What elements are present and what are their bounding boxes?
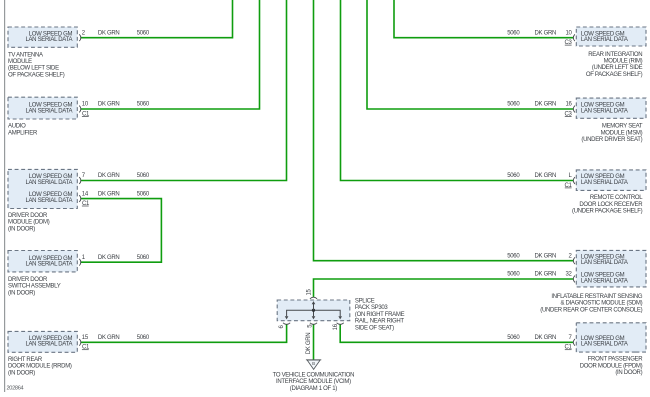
rear integration module RIM pin 10 row — [565, 30, 628, 46]
audio amplifier label — [8, 124, 38, 137]
svg-text:5060: 5060 — [507, 272, 520, 278]
memory seat module MSM label — [581, 124, 642, 143]
svg-text:DK GRN: DK GRN — [535, 102, 557, 108]
svg-text:INFLATABLE RESTRAINT SENSING: INFLATABLE RESTRAINT SENSING — [551, 294, 643, 300]
splice pack SP303 box — [277, 300, 350, 321]
svg-text:LAN SERIAL DATA: LAN SERIAL DATA — [25, 198, 72, 204]
inflatable restraint SDM label — [540, 294, 643, 313]
svg-text:DK GRN: DK GRN — [98, 335, 120, 341]
right rear door module RRDM box — [8, 331, 77, 352]
remote control door lock receiver box — [576, 170, 646, 191]
svg-text:& DIAGNOSTIC MODULE (SDM): & DIAGNOSTIC MODULE (SDM) — [560, 301, 642, 307]
svg-text:5060: 5060 — [507, 173, 520, 179]
svg-text:5060: 5060 — [137, 335, 150, 341]
wire SDM pin 2 to top bus — [314, 0, 574, 261]
wire label FPDM — [507, 335, 556, 341]
wire label RIM — [507, 30, 556, 36]
splice pin 16 arrow (down) — [338, 316, 342, 319]
svg-text:MODULE (RIM): MODULE (RIM) — [604, 59, 643, 65]
memory seat module MSM pin 16 row — [565, 102, 628, 118]
svg-text:DK GRN: DK GRN — [535, 173, 557, 179]
svg-text:TO VEHICLE COMMUNICATION: TO VEHICLE COMMUNICATION — [273, 373, 355, 379]
splice pin 15 connector arc — [310, 297, 317, 299]
svg-text:LAN SERIAL DATA: LAN SERIAL DATA — [25, 262, 72, 268]
svg-text:10: 10 — [82, 102, 89, 108]
svg-text:5060: 5060 — [507, 253, 520, 259]
wire label TV antenna — [98, 30, 150, 36]
svg-text:5060: 5060 — [137, 30, 150, 36]
svg-text:DK GRN: DK GRN — [306, 333, 312, 355]
svg-text:DK GRN: DK GRN — [535, 335, 557, 341]
svg-text:LAN SERIAL DATA: LAN SERIAL DATA — [25, 108, 72, 114]
svg-text:MODULE (DDM): MODULE (DDM) — [8, 220, 50, 226]
svg-text:DK GRN: DK GRN — [98, 173, 120, 179]
svg-text:5060: 5060 — [507, 30, 520, 36]
svg-text:DRIVER DOOR: DRIVER DOOR — [8, 277, 48, 283]
rear integration module RIM label — [586, 52, 643, 78]
svg-text:5060: 5060 — [137, 102, 150, 108]
svg-text:MODULE (MSM): MODULE (MSM) — [601, 130, 643, 136]
svg-text:5060: 5060 — [137, 191, 150, 197]
splice internal bus rail — [287, 310, 341, 316]
svg-text:RIGHT REAR: RIGHT REAR — [8, 357, 43, 363]
wire RIM pin 10 to top — [394, 0, 573, 38]
wire label audio amplifier — [98, 102, 150, 108]
TV antenna module box — [8, 27, 77, 47]
splice pin 5 arrow (down) — [312, 316, 316, 319]
svg-text:(IN DOOR): (IN DOOR) — [8, 370, 35, 376]
wire splice pin 6 to RRDM pin 15 — [80, 324, 286, 342]
svg-text:DK GRN: DK GRN — [98, 191, 120, 197]
splice pin 6 arrow (down) — [285, 316, 289, 319]
svg-text:LAN SERIAL DATA: LAN SERIAL DATA — [581, 180, 628, 186]
wire label SDM pin 32 — [507, 272, 556, 278]
svg-text:5060: 5060 — [137, 255, 150, 261]
svg-text:RAIL, NEAR RIGHT: RAIL, NEAR RIGHT — [355, 319, 405, 325]
svg-text:SWITCH ASSEMBLY: SWITCH ASSEMBLY — [8, 284, 61, 290]
svg-text:(IN DOOR): (IN DOOR) — [615, 370, 642, 376]
svg-text:5060: 5060 — [137, 173, 150, 179]
wire TV antenna pin 2 to top — [80, 0, 232, 38]
svg-text:32: 32 — [566, 272, 573, 278]
svg-text:LAN SERIAL DATA: LAN SERIAL DATA — [25, 342, 72, 348]
svg-text:LAN SERIAL DATA: LAN SERIAL DATA — [581, 37, 628, 43]
driver door switch assembly box — [8, 251, 77, 272]
svg-text:(UNDER PACKAGE SHELF): (UNDER PACKAGE SHELF) — [572, 209, 643, 215]
wire door lock receiver pin L to top — [341, 0, 574, 181]
memory seat module MSM box — [576, 98, 646, 118]
svg-text:FRONT PASSENGER: FRONT PASSENGER — [588, 357, 644, 363]
svg-text:DRIVER DOOR: DRIVER DOOR — [8, 213, 48, 219]
wire SDM pin 32 to splice pin 15 — [314, 279, 574, 297]
svg-text:(BELOW LEFT SIDE: (BELOW LEFT SIDE — [8, 66, 59, 72]
svg-text:DOOR LOCK RECEIVER: DOOR LOCK RECEIVER — [579, 202, 643, 208]
VCIM destination label — [273, 373, 355, 392]
svg-text:AMPLIFIER: AMPLIFIER — [8, 130, 38, 136]
svg-text:OF PACKAGE SHELF): OF PACKAGE SHELF) — [586, 72, 643, 78]
svg-text:(IN DOOR): (IN DOOR) — [8, 290, 35, 296]
wire label DDM pin 7 — [98, 173, 150, 179]
wire DDM pin 14 to driver door switch pin 1 — [80, 199, 161, 263]
svg-text:OF PACKAGE SHELF): OF PACKAGE SHELF) — [8, 72, 65, 78]
svg-text:DK GRN: DK GRN — [535, 30, 557, 36]
right rear door module RRDM label — [8, 357, 72, 376]
rear integration module RIM box — [576, 27, 646, 46]
inflatable restraint SDM pin 2 row — [569, 253, 628, 266]
TV antenna module label — [8, 52, 65, 78]
svg-text:14: 14 — [82, 191, 89, 197]
svg-text:MEMORY SEAT: MEMORY SEAT — [602, 124, 643, 130]
svg-text:(DIAGRAM 1 OF 1): (DIAGRAM 1 OF 1) — [290, 386, 338, 392]
svg-text:INTERFACE MODULE (VCIM): INTERFACE MODULE (VCIM) — [276, 379, 351, 385]
svg-text:15: 15 — [306, 289, 312, 296]
inflatable restraint SDM pin 32 row — [566, 272, 628, 285]
wire MSM pin 16 to top — [367, 0, 573, 109]
svg-text:MODULE: MODULE — [8, 59, 32, 65]
svg-text:DOOR MODULE (FPDM): DOOR MODULE (FPDM) — [580, 363, 643, 369]
svg-text:REAR INTEGRATION: REAR INTEGRATION — [588, 52, 642, 58]
svg-text:DK GRN: DK GRN — [535, 272, 557, 278]
audio amplifier box — [8, 97, 77, 119]
wire label DDM pin 14 — [98, 191, 150, 197]
TV antenna module pin 2 row — [25, 30, 85, 43]
driver door module DDM box — [8, 169, 77, 208]
svg-text:B: B — [312, 361, 315, 366]
svg-text:5060: 5060 — [507, 102, 520, 108]
splice junction dot — [312, 309, 315, 312]
driver door module DDM label — [8, 213, 50, 232]
driver door switch assembly label — [8, 277, 61, 296]
splice pack SP303 label — [355, 299, 405, 332]
svg-text:(ON RIGHT FRAME: (ON RIGHT FRAME — [355, 312, 405, 318]
svg-text:TV ANTENNA: TV ANTENNA — [8, 52, 43, 58]
svg-text:DK GRN: DK GRN — [98, 102, 120, 108]
svg-text:16: 16 — [333, 323, 339, 330]
svg-text:(UNDER REAR OF CENTER CONSOLE): (UNDER REAR OF CENTER CONSOLE) — [540, 307, 642, 313]
svg-text:(UNDER DRIVER SEAT): (UNDER DRIVER SEAT) — [581, 137, 642, 143]
svg-text:202864: 202864 — [7, 385, 24, 391]
splice pin 5 connector arc — [310, 323, 317, 325]
front passenger door module FPDM pin 7 row — [565, 335, 628, 351]
right rear door module RRDM pin 15 row — [25, 335, 90, 351]
svg-text:15: 15 — [82, 335, 89, 341]
svg-text:LAN SERIAL DATA: LAN SERIAL DATA — [25, 180, 72, 186]
driver door module DDM pin 14 row — [25, 191, 90, 207]
svg-text:SIDE OF SEAT): SIDE OF SEAT) — [355, 325, 394, 331]
splice pin 16 connector arc — [337, 323, 344, 325]
wire label RRDM — [98, 335, 150, 341]
svg-text:(UNDER LEFT SIDE: (UNDER LEFT SIDE — [592, 65, 643, 71]
wire label driver door switch — [98, 255, 150, 261]
svg-text:DK GRN: DK GRN — [98, 30, 120, 36]
front passenger door module FPDM box — [576, 323, 646, 352]
remote control door lock receiver pin L row — [565, 173, 628, 189]
VCIM off-page connector B triangle — [306, 360, 321, 370]
front passenger door module FPDM label — [580, 357, 644, 376]
svg-text:SPLICE: SPLICE — [355, 299, 375, 305]
svg-text:(IN DOOR): (IN DOOR) — [8, 226, 35, 232]
svg-text:LAN SERIAL DATA: LAN SERIAL DATA — [581, 260, 628, 266]
remote control door lock receiver label — [572, 195, 643, 214]
wire splice pin 16 to FPDM pin 7 — [340, 324, 573, 342]
splice pin 6 connector arc — [283, 323, 290, 325]
wire splice pin 5 to VCIM connector B — [313, 324, 315, 359]
svg-text:LAN SERIAL DATA: LAN SERIAL DATA — [581, 278, 628, 284]
inflatable restraint SDM box — [576, 250, 646, 287]
svg-text:10: 10 — [566, 30, 573, 36]
wire label MSM — [507, 102, 556, 108]
svg-text:DK GRN: DK GRN — [98, 255, 120, 261]
svg-text:REMOTE CONTROL: REMOTE CONTROL — [590, 195, 643, 201]
audio amplifier pin 10 row — [25, 102, 90, 118]
svg-text:DK GRN: DK GRN — [535, 253, 557, 259]
svg-text:PACK SP303: PACK SP303 — [355, 305, 389, 311]
svg-text:16: 16 — [566, 102, 573, 108]
svg-text:LAN SERIAL DATA: LAN SERIAL DATA — [581, 342, 628, 348]
wire DDM pin 7 to top — [80, 0, 286, 181]
wire label SDM pin 2 — [507, 253, 556, 259]
splice pin 15 arrow (up) — [312, 301, 316, 310]
svg-text:5060: 5060 — [507, 335, 520, 341]
svg-text:DOOR MODULE (RRDM): DOOR MODULE (RRDM) — [8, 364, 72, 370]
svg-text:LAN SERIAL DATA: LAN SERIAL DATA — [25, 37, 72, 43]
svg-text:AUDIO: AUDIO — [8, 124, 26, 130]
driver door module DDM pin 7 row — [25, 173, 85, 186]
driver door switch assembly pin 1 row — [25, 255, 85, 268]
svg-text:LAN SERIAL DATA: LAN SERIAL DATA — [581, 108, 628, 114]
wire label door lock receiver — [507, 173, 556, 179]
wire audio amplifier pin 10 to top — [80, 0, 259, 109]
